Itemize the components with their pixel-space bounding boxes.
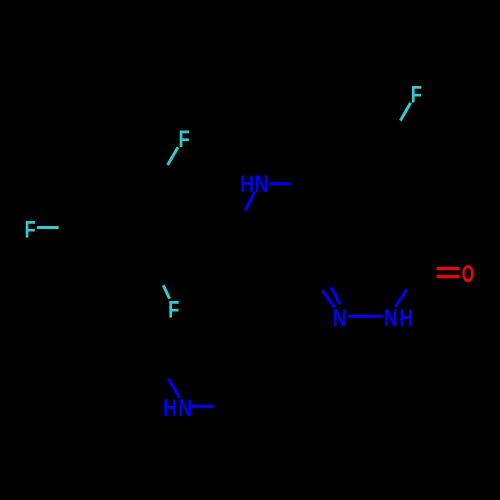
svg-text:H: H: [240, 170, 254, 198]
svg-text:N: N: [178, 393, 192, 421]
svg-text:F: F: [24, 215, 35, 243]
bond F1-C (left F, half bond): [37, 226, 59, 229]
bond C=N double line b (half): [331, 287, 340, 304]
bond HN1-C ring (half bond right): [270, 182, 291, 185]
svg-text:N: N: [384, 304, 398, 332]
bond F3-C (lower F of trifluorophenyl, half bond): [163, 285, 169, 299]
svg-text:F: F: [411, 80, 422, 108]
bond C=N double line a (half): [322, 290, 334, 307]
bond F2-C (upper F of trifluorophenyl, half bond): [168, 147, 178, 165]
svg-text:N: N: [333, 304, 347, 332]
bond HN1-CH (half bond down-left): [245, 192, 255, 210]
bond C=O double line a (half): [437, 267, 460, 270]
svg-text:H: H: [163, 393, 177, 421]
bond HN2-C right (half): [192, 405, 213, 408]
svg-text:F: F: [178, 124, 189, 152]
svg-text:O: O: [462, 260, 474, 287]
bond F4-C (top right F, half bond): [400, 103, 410, 121]
bond C=O double line b (half): [437, 275, 460, 278]
bond HN2-C up (half): [168, 379, 179, 398]
svg-text:F: F: [168, 295, 179, 323]
svg-text:H: H: [399, 304, 413, 332]
bond NH-C carbonyl (half): [395, 289, 406, 306]
svg-text:N: N: [255, 170, 269, 198]
bond N-N: [348, 315, 383, 318]
